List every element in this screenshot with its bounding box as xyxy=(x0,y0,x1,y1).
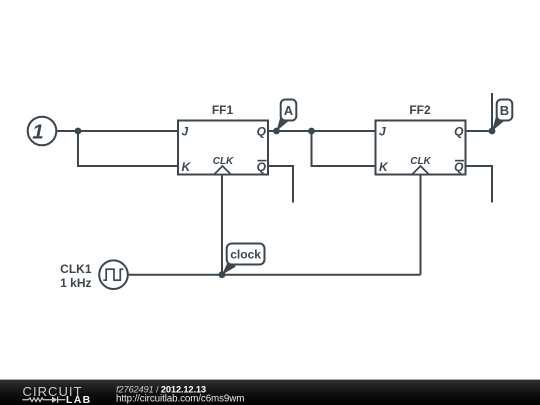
svg-text:clock: clock xyxy=(230,248,261,262)
logic-1 source V1 xyxy=(28,117,57,146)
svg-text:K: K xyxy=(379,160,389,174)
svg-text:FF2: FF2 xyxy=(409,103,431,117)
FF2 pin label Q-bar xyxy=(454,160,464,174)
wire: clock to FF2 CLK xyxy=(420,175,422,275)
svg-text:FF1: FF1 xyxy=(212,103,234,117)
flip-flop FF1 body xyxy=(178,121,268,175)
wire: clock to FF1 CLK xyxy=(221,175,223,275)
junction: node B xyxy=(489,128,496,135)
clock source CLK1 xyxy=(99,260,128,289)
junction: branch to FF2 K xyxy=(308,128,315,135)
junction: node A on Q wire xyxy=(273,128,280,135)
FF1 pin label Q-bar xyxy=(257,160,267,174)
node A flag xyxy=(277,100,297,132)
footer bar xyxy=(0,380,540,405)
svg-text:A: A xyxy=(284,103,294,118)
svg-text:J: J xyxy=(379,124,386,138)
wire: FF1 Q-bar stub xyxy=(268,166,293,203)
junction: node at source output xyxy=(75,128,82,135)
svg-text:K: K xyxy=(182,160,192,174)
svg-text:J: J xyxy=(182,124,189,138)
svg-text:Q: Q xyxy=(257,124,267,138)
svg-text:1: 1 xyxy=(32,121,43,144)
svg-text:http://circuitlab.com/c6ms9wm: http://circuitlab.com/c6ms9wm xyxy=(116,393,244,404)
svg-text:Q: Q xyxy=(257,160,267,174)
wire: branch down and right to FF2 K xyxy=(312,131,376,166)
svg-text:LAB: LAB xyxy=(66,394,91,405)
wire: FF2 Q to node B xyxy=(466,130,493,132)
FF1 clock edge triangle xyxy=(214,166,231,175)
wire: node B stub up xyxy=(491,93,493,131)
flip-flop FF2 body xyxy=(376,121,466,175)
wire: junction down and right to FF1 K xyxy=(78,131,178,166)
svg-text:Q: Q xyxy=(454,160,464,174)
node B flag xyxy=(492,100,512,132)
CircuitLab logo resistor-diode glyph xyxy=(22,397,65,403)
wire: source to FF1 J xyxy=(56,130,178,132)
svg-text:1 kHz: 1 kHz xyxy=(60,276,91,290)
FF2 clock edge triangle xyxy=(412,166,429,175)
junction: clock node xyxy=(219,271,226,278)
svg-text:Q: Q xyxy=(454,124,464,138)
svg-text:B: B xyxy=(500,103,509,118)
wire: clock net horizontal xyxy=(128,274,421,276)
svg-text:CLK: CLK xyxy=(213,156,234,167)
svg-text:CLK1: CLK1 xyxy=(60,262,92,276)
node clock flag xyxy=(222,244,265,275)
wire: FF1 Q to FF2 J xyxy=(268,130,376,132)
wire: FF2 Q-bar stub xyxy=(466,166,493,203)
